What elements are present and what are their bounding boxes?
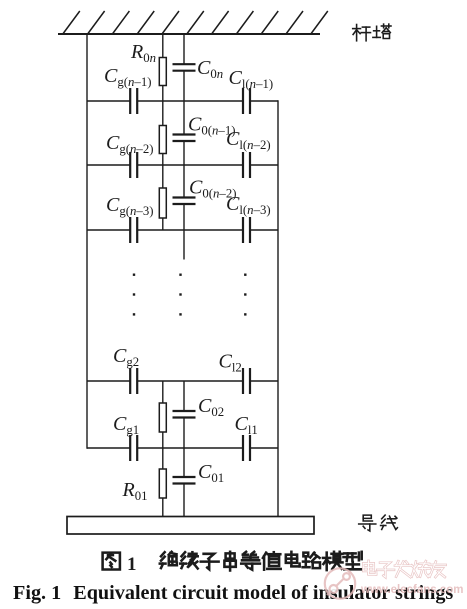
left rail (tower side) bbox=[86, 34, 88, 449]
capacitor Cln-3 bbox=[243, 217, 250, 243]
resistor R01 bbox=[159, 448, 166, 517]
tower ground hatch bbox=[58, 11, 328, 34]
ellipsis dots (omitted sections) bbox=[133, 274, 247, 316]
rung y=230 wire bbox=[87, 229, 278, 231]
capacitor Cgn-3 bbox=[130, 217, 137, 243]
watermark logo circle bbox=[325, 568, 355, 598]
resistor R0n bbox=[159, 34, 166, 101]
conductor bar bbox=[67, 517, 314, 535]
capacitor Cgn-2 bbox=[130, 152, 137, 178]
rung y=381 wire bbox=[87, 380, 278, 382]
capacitor C0(n-1) bbox=[173, 101, 196, 165]
capacitor Cln-2 bbox=[243, 152, 250, 178]
rung y=165 wire bbox=[87, 164, 278, 166]
svg-text:www.elecfans.com: www.elecfans.com bbox=[360, 584, 463, 596]
label 杆塔 (tower) bbox=[353, 24, 391, 41]
resistor R02 bbox=[159, 381, 166, 448]
capacitor Cln-1 bbox=[243, 88, 250, 114]
capacitor Cl2 bbox=[243, 368, 250, 394]
capacitor C02 bbox=[173, 381, 196, 448]
capacitor Cg1 bbox=[130, 435, 137, 461]
watermark 电子发烧友 bbox=[363, 561, 446, 577]
resistor R0(n-2) bbox=[159, 165, 166, 230]
capacitor C01 bbox=[173, 448, 196, 517]
label 导线 (conductor) bbox=[359, 515, 398, 531]
right rail (line side) bbox=[277, 100, 279, 516]
rung y=101 wire bbox=[87, 100, 278, 102]
capacitor Cgn-1 bbox=[130, 88, 137, 114]
caption line 1: 图1 绝缘子串等值电路模型 bbox=[103, 552, 362, 575]
capacitor C0n bbox=[173, 34, 196, 101]
resistor R0(n-1) bbox=[159, 101, 166, 165]
capacitor Cl1 bbox=[243, 435, 250, 461]
rung y=448 wire bbox=[87, 447, 278, 449]
capacitor Cg2 bbox=[130, 368, 137, 394]
capacitor C0(n-2) bbox=[173, 165, 196, 230]
wire stub below third section bbox=[183, 230, 185, 260]
svg-text:1: 1 bbox=[127, 554, 137, 575]
